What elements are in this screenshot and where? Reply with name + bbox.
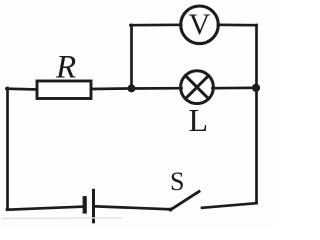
switch S1 blade <box>171 192 200 210</box>
voltmeter U1 circle <box>181 6 219 44</box>
battery BT1 long plate <box>92 190 95 222</box>
battery BT1 short plate <box>83 198 87 211</box>
wire top right horizontal <box>218 23 257 26</box>
svg-text:R: R <box>55 50 76 86</box>
resistor R1 body <box>37 81 91 99</box>
node A junction dot left <box>128 84 136 92</box>
lamp cross stroke 1 <box>185 76 208 99</box>
node B junction dot right <box>252 84 260 92</box>
wire top left horizontal <box>131 23 182 26</box>
lamp cross stroke 2 <box>185 76 208 99</box>
wire left vertical <box>6 88 9 210</box>
wire lamp to right node <box>213 86 257 89</box>
wire resistor to left node <box>91 87 131 90</box>
wire bottom left <box>7 207 83 210</box>
wire middle row left (to resistor) <box>7 87 38 91</box>
svg-text:S: S <box>170 167 184 196</box>
wire right vertical top <box>255 25 258 88</box>
lamp L1 circle <box>181 71 214 104</box>
svg-text:L: L <box>189 102 209 138</box>
switch pivot nub <box>169 208 173 212</box>
svg-text:V: V <box>189 8 211 41</box>
wire switch to right corner <box>202 203 257 208</box>
wire left node up <box>130 25 133 89</box>
wire right vertical bottom <box>255 88 258 203</box>
wire battery to switch <box>95 206 171 209</box>
wire left node to lamp <box>131 87 182 90</box>
scan smudge bottom edge <box>2 217 122 220</box>
